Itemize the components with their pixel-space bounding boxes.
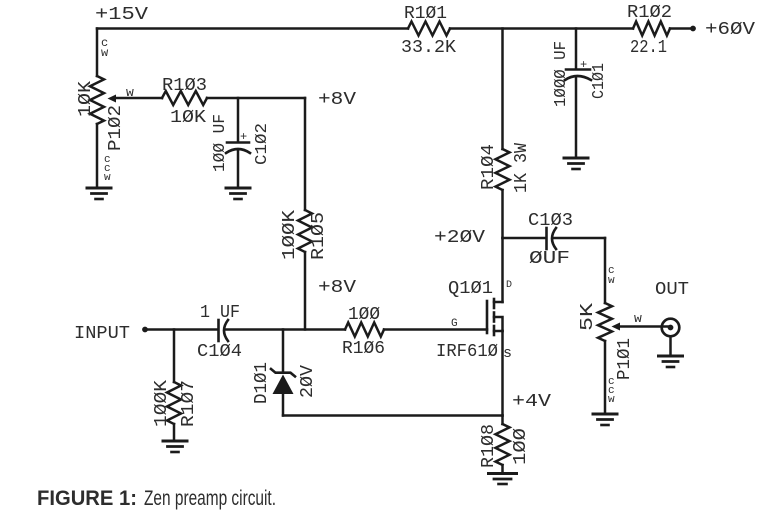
svg-text:5K: 5K [578,303,598,331]
svg-text:w: w [126,85,134,100]
node +60V terminal [690,26,696,32]
wire R103 to +8V corner [207,97,305,100]
resistor R106 [342,305,385,359]
svg-text:1ØK: 1ØK [76,81,96,117]
wire R105 bottom to input row [304,252,307,330]
svg-text:1ØØ UF: 1ØØ UF [211,114,230,172]
caption FIGURE 1 [37,486,276,510]
wire R106 to Q101 gate [384,328,487,331]
svg-text:w: w [104,172,111,184]
svg-text:+8V: +8V [318,278,356,298]
resistor R101 [401,4,456,58]
svg-text:Q1Ø1: Q1Ø1 [448,279,493,299]
svg-text:D1Ø1: D1Ø1 [252,362,272,404]
node input terminal dot [142,327,148,333]
Q101 drain lead [494,301,503,304]
ground P101 [593,413,617,416]
connector OUT jack [662,319,680,356]
wire corner down to P101 [604,238,607,303]
svg-text:R1Ø8: R1Ø8 [479,424,499,468]
svg-text:w: w [101,46,109,60]
svg-text:R1Ø3: R1Ø3 [162,76,207,96]
ground R107 [163,440,187,443]
wire top rail junction down to R104 [501,29,504,150]
svg-text:R1Ø7: R1Ø7 [179,380,199,427]
wire D101 bottom to +4V source node [283,414,503,417]
svg-text:1ØK: 1ØK [170,108,206,128]
svg-text:P1Ø2: P1Ø2 [106,105,126,151]
svg-text:+: + [580,58,587,72]
wire R104 to +20V node [501,190,504,238]
svg-text:1ØØK: 1ØØK [280,210,300,260]
Q101 source lead [494,330,503,333]
wire P101 bottom to ground [604,341,607,414]
wire +8V corner down to R105 [304,98,307,210]
potentiometer P101 [578,265,670,406]
svg-text:1K 3W: 1K 3W [512,143,532,193]
svg-text:INPUT: INPUT [74,324,130,344]
P101 wiper arrow [612,323,621,331]
svg-text:+4V: +4V [512,392,551,412]
wire drain from +20V node [501,238,504,302]
svg-text:FIGURE 1:: FIGURE 1: [37,486,137,510]
svg-text:1ØØØ UF: 1ØØØ UF [552,41,571,107]
capacitor C103 [528,211,573,269]
svg-text:1ØØ: 1ØØ [348,305,380,325]
svg-text:Zen preamp circuit.: Zen preamp circuit. [144,486,276,510]
resistor R107 [152,380,199,427]
Q101 body tie [494,317,503,331]
svg-text:C1Ø3: C1Ø3 [528,211,573,231]
wire top rail junction to C101 [575,29,578,70]
resistor R105 [280,210,329,260]
wire top rail middle segment (R101 to R102) [450,27,633,30]
resistor R104 [479,143,532,193]
resistor R108 [479,424,531,468]
svg-text:P1Ø1: P1Ø1 [615,338,635,380]
ground P102 [87,187,111,190]
svg-text:+8V: +8V [318,90,356,110]
svg-text:s: s [503,345,512,362]
ground R108 [489,472,517,475]
svg-text:R1Ø1: R1Ø1 [404,4,447,24]
svg-text:+15V: +15V [95,5,148,25]
svg-text:1ØØK: 1ØØK [152,380,172,427]
wire C104 to R106 [226,328,345,331]
ground C102 [226,187,250,190]
capacitor C101 [552,41,609,158]
wire top rail left segment (+15V corner to R101) [97,27,408,30]
svg-text:2ØV: 2ØV [298,365,318,398]
potentiometer P102 [76,36,162,184]
svg-text:R1Ø4: R1Ø4 [479,144,499,190]
wire +20V node to C103 [503,237,547,240]
svg-text:G: G [451,318,458,330]
wire R108 to ground [501,465,504,474]
transistor Q101 IRF610 [436,238,512,362]
wire top rail right segment (R102 to +60V terminal) [670,27,691,30]
svg-text:w: w [608,394,615,406]
svg-text:w: w [634,311,642,326]
resistor R103 [162,76,207,128]
wire P102 bottom to ground [96,124,99,188]
svg-text:33.2K: 33.2K [401,38,456,58]
svg-text:1 UF: 1 UF [200,303,240,323]
Q101 channel segments [493,299,496,308]
svg-text:R1Ø2: R1Ø2 [627,3,672,23]
wire +4V node to R108 [501,416,504,425]
svg-text:OUT: OUT [655,280,689,300]
svg-text:1ØØ: 1ØØ [511,428,531,465]
svg-text:22.1: 22.1 [630,38,667,58]
svg-text:ØUF: ØUF [529,249,570,269]
svg-text:D: D [506,280,512,291]
diode D101 zener 20V [252,330,318,416]
wire R107 to ground [173,424,176,441]
svg-text:IRF61Ø: IRF61Ø [436,342,498,362]
wire Q101 source down to +4V node [501,331,504,416]
svg-text:w: w [608,275,615,287]
svg-text:R1Ø6: R1Ø6 [342,339,385,359]
svg-text:+6ØV: +6ØV [705,20,755,40]
wire C103 to P101 corner [554,237,605,240]
svg-text:C1Ø4: C1Ø4 [197,342,242,362]
svg-text:+: + [240,130,247,144]
svg-text:C1Ø2: C1Ø2 [253,123,272,165]
capacitor C102 [211,98,272,187]
ground OUT jack [659,355,683,358]
resistor R102 [627,3,672,58]
svg-text:C1Ø1: C1Ø1 [590,63,609,99]
svg-text:+2ØV: +2ØV [434,228,485,248]
Q101 gate bar [486,301,489,333]
capacitor C104 [197,303,242,362]
svg-text:R1Ø5: R1Ø5 [309,212,329,260]
P102 wiper arrow [108,95,117,103]
wire +15V rail drop to P102 [96,29,99,77]
wire input terminal to C104 [145,328,218,331]
ground C101 [564,157,588,160]
wire input junction down to R107 [173,330,176,383]
